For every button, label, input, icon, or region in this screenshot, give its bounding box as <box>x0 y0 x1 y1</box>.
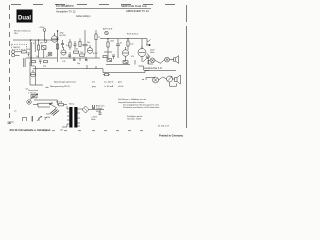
svg-text:0,1: 0,1 <box>33 43 36 45</box>
svg-text:n. Muster: n. Muster <box>28 92 37 95</box>
label printed in germany <box>159 134 183 138</box>
svg-text:Si 0,5A: Si 0,5A <box>56 101 63 104</box>
speaker label underline <box>144 67 162 70</box>
switch arrow S2 <box>37 116 42 121</box>
wire <box>148 54 151 65</box>
resistor R8b <box>103 56 107 58</box>
label fuse <box>56 101 63 104</box>
output connector <box>146 39 151 45</box>
svg-text:ADF 142 B: ADF 142 B <box>103 28 113 31</box>
svg-text:10k: 10k <box>80 52 83 54</box>
label bottom mid-right col <box>123 103 159 109</box>
wire <box>15 52 22 56</box>
svg-text:0,01: 0,01 <box>130 44 134 46</box>
wire <box>33 100 58 105</box>
resistor R4 <box>95 34 97 40</box>
svg-text:220k: 220k <box>74 49 78 51</box>
wire <box>108 39 142 49</box>
lamp L1 <box>150 58 155 63</box>
wire riser <box>87 65 96 69</box>
node <box>44 40 47 43</box>
svg-text:Gezeichnet: Gezeichnet <box>28 89 39 92</box>
svg-text:SERVICE Dual Ann: SERVICE Dual Ann <box>121 4 147 8</box>
wire <box>39 50 44 59</box>
svg-text:B250 C75: B250 C75 <box>96 106 104 108</box>
svg-text:350V: 350V <box>96 111 101 113</box>
wire row low <box>26 57 57 59</box>
bracket wire2 <box>142 78 155 81</box>
wire <box>30 84 43 86</box>
svg-text:220: 220 <box>60 130 63 132</box>
label text block left <box>28 89 39 95</box>
node <box>108 38 109 39</box>
capacitor C5b <box>112 55 115 59</box>
label netz row <box>50 81 123 88</box>
resistor R3 <box>56 44 58 49</box>
svg-text:Gülte Gültig 1: Gülte Gültig 1 <box>76 15 91 18</box>
trimmer X2 <box>107 59 112 62</box>
label mid text2 <box>118 98 146 104</box>
node A <box>30 40 31 41</box>
svg-text:470k: 470k <box>60 33 64 35</box>
resistor R6 <box>80 54 85 56</box>
fuse bar <box>31 116 33 122</box>
logo Dual <box>17 10 33 23</box>
resistor R2 <box>37 45 39 50</box>
svg-text:Printed in Germany: Printed in Germany <box>159 134 183 138</box>
speaker box SP3 <box>175 75 181 84</box>
capacitor C5 <box>116 44 120 48</box>
mains cable hatch <box>50 109 59 116</box>
label top <box>103 28 138 36</box>
fuse F1 <box>59 104 64 106</box>
tube V1 <box>51 36 57 42</box>
capacitor C6 <box>93 105 95 109</box>
shielded cable <box>30 40 32 66</box>
transformer taps right <box>78 109 81 126</box>
capacitor C4c <box>85 60 88 61</box>
svg-text:220V: 220V <box>46 114 51 116</box>
svg-text:±10%: ±10% <box>118 86 123 88</box>
border frame top dashed <box>11 3 186 5</box>
tube V3 <box>87 48 93 54</box>
wire <box>60 50 100 58</box>
resistor R8 <box>127 41 129 46</box>
svg-text:EC92: EC92 <box>93 53 98 55</box>
label right top <box>150 50 156 55</box>
svg-text:gem.: gem. <box>118 82 123 84</box>
svg-text:Dual: Dual <box>18 16 31 22</box>
svg-text:470: 470 <box>131 56 134 58</box>
svg-text:I = 45 mA: I = 45 mA <box>104 85 114 88</box>
wire <box>155 60 174 64</box>
resistor R10 <box>69 42 71 47</box>
lamp circle <box>48 52 52 56</box>
node B <box>43 29 46 32</box>
fold marks left <box>8 122 14 123</box>
capacitor C10 <box>61 40 64 48</box>
label values left <box>27 43 49 68</box>
wire <box>159 77 176 80</box>
trimmer X1 <box>42 46 47 50</box>
wire below tubes <box>106 56 142 64</box>
svg-text:mit: mit <box>92 81 95 84</box>
label small <box>14 111 63 132</box>
svg-text:Gerät-Nr. 21001: Gerät-Nr. 21001 <box>127 117 142 120</box>
svg-text:50µ: 50µ <box>87 42 90 44</box>
capacitor C2b <box>39 60 42 64</box>
label <box>60 33 66 38</box>
title text left <box>56 4 76 13</box>
jack J3 <box>27 100 31 104</box>
svg-text:2x50µF: 2x50µF <box>96 108 103 110</box>
wire stepped <box>38 104 50 107</box>
node A <box>57 31 58 32</box>
svg-text:+ 265V: + 265V <box>91 117 98 119</box>
border frame left dashed <box>9 5 11 123</box>
svg-text:EL95 6,3V 2x: EL95 6,3V 2x <box>127 33 138 35</box>
transformer taps left <box>67 109 69 124</box>
svg-text:1,2k: 1,2k <box>62 61 65 63</box>
wire main left vertical <box>56 30 58 62</box>
svg-text:Schaltplan gilt ab: Schaltplan gilt ab <box>127 115 143 118</box>
tube V2 <box>61 50 66 55</box>
tube V4 <box>122 50 128 56</box>
capacitor C1 <box>28 53 30 57</box>
svg-text:0,5: 0,5 <box>46 56 49 58</box>
tick marks <box>45 118 48 120</box>
svg-text:TA/TB 1: TA/TB 1 <box>13 46 21 49</box>
label <box>62 45 98 65</box>
capacitor C7 <box>99 113 102 114</box>
svg-text:110V: 110V <box>46 117 51 119</box>
svg-text:100k: 100k <box>110 41 114 43</box>
label BV text <box>14 30 31 36</box>
pot P1 <box>31 72 36 77</box>
svg-text:Original-Ersatzteilen ersetzen: Original-Ersatzteilen ersetzen <box>118 101 144 104</box>
svg-text:Netztr.: Netztr. <box>69 103 75 106</box>
resistor R5 <box>74 51 79 53</box>
label bottom left <box>10 128 51 132</box>
wire vertical <box>35 40 38 52</box>
label <box>110 41 150 59</box>
svg-text:a b: a b <box>14 111 17 113</box>
svg-text:AMPLIFIER TV 12: AMPLIFIER TV 12 <box>126 9 149 13</box>
svg-text:25µ: 25µ <box>43 66 46 68</box>
capacitor C11 <box>74 41 77 48</box>
svg-text:geg.: geg. <box>92 86 96 88</box>
svg-text:U = 250 V: U = 250 V <box>104 82 114 84</box>
transformer T1 core <box>69 107 77 128</box>
resistor R7 <box>107 42 109 47</box>
wire <box>104 46 128 58</box>
input dashed box <box>12 44 27 49</box>
svg-text:+250V: +250V <box>39 27 45 29</box>
bottom dash row <box>52 130 143 132</box>
pot P2 <box>31 95 37 98</box>
svg-text:47k: 47k <box>27 49 30 51</box>
voltage selector bracket <box>23 118 27 122</box>
label trafo left <box>46 114 51 120</box>
speaker SP1 <box>153 77 159 83</box>
svg-text:50µ: 50µ <box>77 63 80 65</box>
resistor R12 <box>123 61 128 64</box>
svg-text:50Hz: 50Hz <box>150 52 154 54</box>
svg-text:Lautsprecher 4 Ω: Lautsprecher 4 Ω <box>144 67 162 70</box>
input jack J1 <box>12 50 15 53</box>
subtitle row <box>76 15 91 18</box>
border frame right <box>186 5 188 128</box>
label bottom right small <box>158 124 170 127</box>
wire input bus <box>13 39 58 41</box>
title underline <box>56 7 118 9</box>
resistor R9 <box>174 56 179 64</box>
switch S1 <box>50 102 57 108</box>
label <box>87 37 100 45</box>
svg-text:Es bestehen: Es bestehen <box>56 4 74 8</box>
speaker SP2 <box>167 76 173 82</box>
svg-text:341 41-0 Ersatzteile u. Schal: 341 41-0 Ersatzteile u. Schaltplan <box>10 128 51 132</box>
cable pair low <box>24 58 25 67</box>
resistor R3b <box>32 60 36 62</box>
wire <box>89 107 104 113</box>
svg-text:5k: 5k <box>120 43 122 45</box>
long bus wires <box>33 69 149 73</box>
bracket wires mid right <box>139 60 154 70</box>
input jack J2 <box>12 54 15 57</box>
svg-text:Die angegebenen Spannungswerte: Die angegebenen Spannungswerte sind <box>123 103 159 106</box>
svg-text:1k: 1k <box>98 37 100 39</box>
wire speaker U link <box>170 82 177 86</box>
svg-text:50Hz: 50Hz <box>91 119 95 121</box>
svg-text:ECC83: ECC83 <box>60 35 66 37</box>
resistor R11 <box>79 42 81 47</box>
label trafo top <box>69 103 75 106</box>
svg-text:0,01: 0,01 <box>66 45 70 47</box>
svg-text:Netzspannung 220 V~: Netzspannung 220 V~ <box>50 85 71 88</box>
resistor R4b <box>44 60 48 62</box>
arrow to speaker <box>143 58 148 63</box>
resistor Rb <box>105 74 109 76</box>
resistor R1 <box>22 51 27 53</box>
svg-text:2k: 2k <box>36 56 38 58</box>
svg-text:100k: 100k <box>31 66 35 68</box>
capacitor C4 <box>68 55 71 56</box>
tube V5 <box>138 49 146 57</box>
lamp L2 <box>165 57 170 62</box>
title text right <box>121 4 149 13</box>
svg-text:Spannungen gemessen: Spannungen gemessen <box>54 82 77 84</box>
svg-text:Verstärker TV 12: Verstärker TV 12 <box>56 9 76 13</box>
wire left vertical <box>30 62 36 85</box>
capacitor C3 <box>83 44 88 50</box>
wire verticals mid <box>85 30 96 44</box>
label rectifier <box>91 106 104 122</box>
wire top bus right <box>100 38 147 40</box>
svg-text:BV 80-7 (Stereo): BV 80-7 (Stereo) <box>14 30 31 33</box>
wire <box>62 106 83 127</box>
rectifier D1 <box>82 106 89 113</box>
small marks <box>74 57 86 61</box>
capacitor C4b <box>73 60 76 61</box>
svg-text:Die Röhren u. Halbleiter nur m: Die Röhren u. Halbleiter nur mit <box>118 98 146 101</box>
svg-text:Richtwerte und können ±10% abw: Richtwerte und können ±10% abweichen <box>123 106 159 109</box>
svg-text:St. Vgl. 2.59: St. Vgl. 2.59 <box>158 124 170 127</box>
